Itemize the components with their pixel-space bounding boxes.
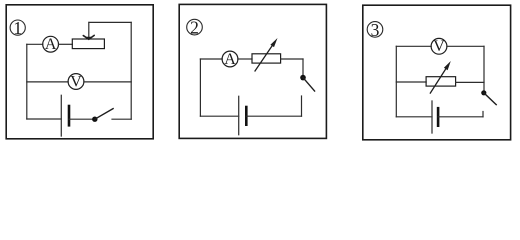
battery B1 short plate [68, 106, 71, 125]
switch S1 pivot dot [92, 117, 97, 122]
wire: rheostat2 to top-right corner [281, 58, 303, 60]
rheostat R3 body [426, 77, 456, 86]
panel 3 frame [363, 5, 511, 140]
switch S3 pivot dot [481, 90, 486, 95]
panel 2 frame [179, 4, 326, 138]
ammeter A [43, 36, 59, 53]
battery B1 long plate [60, 95, 62, 136]
wire: panel2 bottom row left [200, 115, 238, 117]
svg-text:A: A [224, 51, 236, 68]
label circled 1 [10, 18, 25, 38]
wire: panel3 middle row right segment [456, 81, 484, 83]
svg-text:A: A [45, 36, 57, 53]
wire: panel3 top row right segment [447, 45, 484, 47]
svg-text:1: 1 [13, 18, 22, 38]
ammeter A2 [222, 51, 238, 68]
wire: panel1 right vertical [130, 22, 132, 119]
wire: panel3 right vertical lower stub [482, 112, 484, 117]
wire: ammeter to rheostat [59, 43, 73, 45]
wire: slider loop top [89, 21, 131, 23]
switch S2 pivot dot [300, 75, 306, 81]
wire: panel3 right vertical [483, 46, 485, 90]
wire: V row left segment [27, 81, 68, 83]
wire: V row right segment [84, 81, 131, 83]
wire: panel1 top row left segment [27, 43, 43, 45]
rheostat R2 diagonal arrow [255, 38, 278, 71]
battery B2 short plate [245, 107, 248, 125]
svg-text:2: 2 [190, 18, 199, 38]
wire: panel1 bottom row left [27, 118, 62, 120]
wire: switch to bottom-right corner [112, 118, 131, 120]
wire: ammeter to rheostat 2 [238, 58, 252, 60]
voltmeter V3 [431, 38, 447, 55]
wire: panel3 top row left segment [396, 45, 431, 47]
wire: panel3 middle row left segment [396, 81, 426, 83]
wire: panel2 top row left segment [200, 58, 222, 60]
wire: battery to switch [69, 118, 95, 120]
battery B2 long plate [238, 96, 240, 134]
wire: panel2 right vertical lower stub [301, 96, 303, 116]
switch S1 lever [95, 109, 113, 120]
wire: panel1 left vertical [26, 44, 28, 119]
svg-text:3: 3 [371, 20, 380, 40]
rheostat R3 diagonal arrow [430, 61, 451, 93]
battery B3 long plate [431, 101, 433, 133]
wire: panel2 left vertical [199, 59, 201, 116]
label circled 2 [187, 18, 203, 38]
rheostat R2 body [252, 54, 281, 63]
wire: panel2 bottom row right [246, 115, 301, 117]
label circled 3 [367, 20, 383, 40]
rheostat R1 body [72, 39, 104, 49]
voltmeter V [68, 73, 84, 90]
wire: panel3 bottom row right [438, 116, 483, 118]
wire: panel3 left vertical [395, 46, 397, 117]
switch S3 lever [484, 93, 496, 105]
rheostat R1 slider arrow (points down onto body) [83, 22, 94, 39]
switch S2 lever [303, 78, 315, 91]
wire: panel3 bottom row left [396, 116, 432, 118]
battery B3 short plate [437, 108, 440, 126]
svg-text:V: V [70, 73, 82, 90]
svg-text:V: V [433, 38, 445, 55]
panel 1 frame [6, 5, 153, 139]
wire: panel2 right vertical upper [302, 59, 304, 76]
